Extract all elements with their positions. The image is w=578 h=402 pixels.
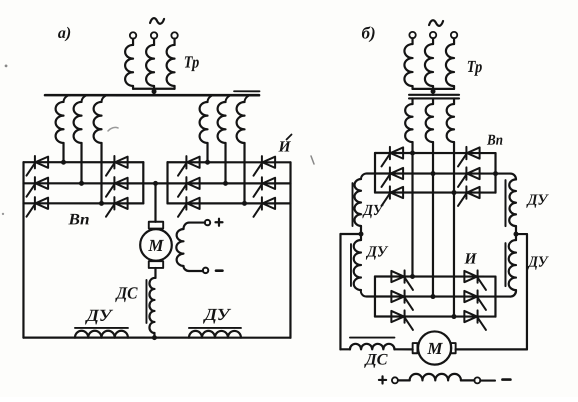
svg-text:Вп: Вп [486, 133, 503, 149]
svg-text:а): а) [58, 25, 71, 42]
svg-text:М: М [426, 339, 443, 358]
svg-text:ДС: ДС [115, 283, 138, 302]
svg-text:б): б) [361, 24, 375, 43]
svg-text:ДУ: ДУ [202, 305, 231, 324]
svg-text:И: И [463, 251, 477, 268]
svg-text:И: И [277, 138, 291, 155]
svg-text:Тр: Тр [467, 57, 483, 76]
svg-text:ДУ: ДУ [527, 254, 550, 271]
svg-text:ДУ: ДУ [365, 244, 389, 261]
svg-text:ДУ: ДУ [526, 192, 550, 209]
svg-text:М: М [147, 236, 164, 255]
svg-text:ДУ: ДУ [84, 306, 113, 325]
svg-text:Вп: Вп [67, 211, 89, 228]
svg-text:ДУ: ДУ [362, 202, 385, 219]
svg-text:ДС: ДС [363, 352, 387, 369]
svg-text:Тр: Тр [184, 52, 200, 71]
